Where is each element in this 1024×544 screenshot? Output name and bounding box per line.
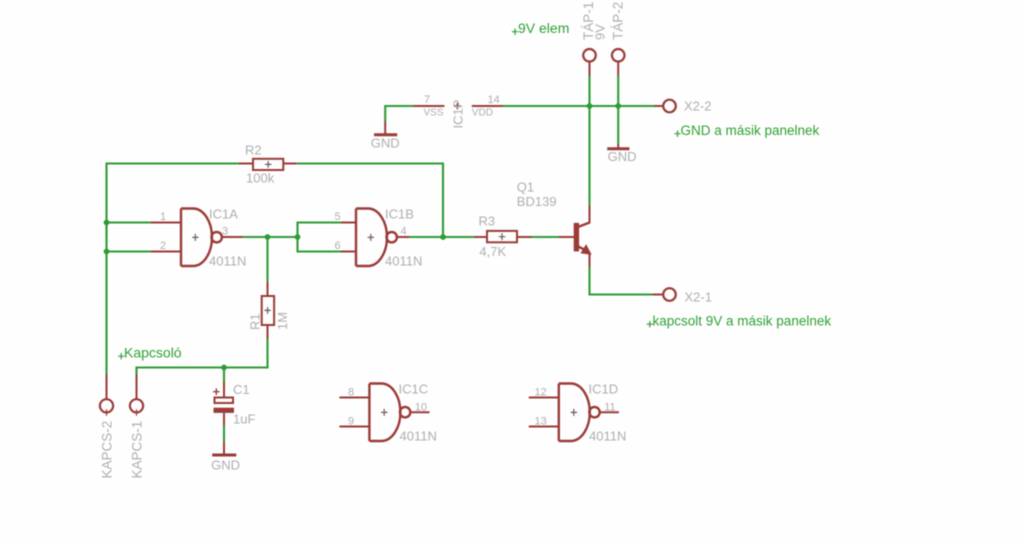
op-amp gate IC1D (4011 NAND D) (559, 383, 600, 441)
wire R3 to Q1 base (532, 236, 560, 238)
pin IC1A input stubs (151, 222, 181, 224)
pin IC1C output stub (410, 411, 429, 413)
pin R1 top stub (267, 282, 269, 296)
svg-text:X2-2: X2-2 (684, 99, 711, 114)
wire IC1B output to R3 (409, 236, 475, 238)
svg-text:R2: R2 (245, 143, 262, 158)
op-amp gate IC1B (4011 NAND B) (356, 209, 397, 267)
svg-text:KAPCS-2: KAPCS-2 (100, 421, 115, 479)
svg-text:GND a másik panelnek: GND a másik panelnek (681, 123, 820, 138)
pin X2-1 stub (653, 294, 664, 296)
wire branch to IC1B inputs (298, 223, 342, 252)
svg-text:100k: 100k (246, 171, 275, 186)
connector pad X2-2 (663, 100, 676, 113)
svg-text:Kapcsoló: Kapcsoló (124, 345, 182, 361)
junction node C1 top (221, 365, 227, 371)
wire left vertical to KAPCS-2 (105, 223, 107, 375)
svg-text:IC1A: IC1A (209, 207, 238, 222)
wire TAP-2 down to GND (617, 76, 619, 144)
wire TAP-1 down to rail and Q1 collector (588, 76, 590, 206)
pin Q1 base stub (559, 236, 574, 238)
net label origin cross GND (674, 131, 680, 137)
svg-text:14: 14 (488, 94, 500, 106)
pin GND stub under TAP-2 (617, 144, 619, 148)
pin IC1D output stub (600, 411, 619, 413)
pin R3 right stub (517, 236, 532, 238)
capacitor C1 top plate (215, 398, 234, 404)
op-amp gate IC1A (4011 NAND A) (181, 209, 222, 267)
ground symbol left (VSS) (374, 133, 397, 136)
junction node IC1A pin2 (104, 249, 110, 255)
svg-text:1M: 1M (275, 312, 290, 330)
wire VSS corner to GND (385, 106, 413, 121)
svg-text:4011N: 4011N (385, 254, 422, 269)
wire C1 top stub (223, 368, 225, 383)
pin VDD stub pin14 (472, 105, 503, 107)
svg-text:13: 13 (535, 416, 547, 428)
resistor R2 body (253, 159, 283, 170)
svg-text:VDD: VDD (472, 108, 493, 119)
svg-text:1: 1 (160, 211, 166, 223)
pin IC1A output stub (222, 236, 243, 238)
op-amp gate IC1C (4011 NAND C) (369, 383, 410, 441)
wire R2 feedback top rail (107, 164, 239, 238)
svg-text:GND: GND (371, 136, 400, 151)
transistor Q1 emitter arrow (581, 245, 591, 254)
wire C1 bottom to GND (223, 426, 225, 442)
pin IC1B input stubs (341, 222, 356, 224)
transistor Q1 collector line (578, 222, 590, 227)
wire node to R1 top (266, 237, 268, 282)
svg-text:VSS: VSS (424, 108, 444, 119)
svg-text:kapcsolt 9V a másik panelnek: kapcsolt 9V a másik panelnek (653, 314, 832, 329)
connector pad KAPCS-1 (130, 399, 143, 412)
wire R2 right to IC1B output node (297, 164, 443, 238)
svg-text:TÁP-2: TÁP-2 (611, 2, 626, 40)
svg-text:1uF: 1uF (233, 412, 255, 427)
svg-text:IC1B: IC1B (385, 207, 414, 222)
svg-text:10: 10 (415, 402, 427, 414)
svg-text:GND: GND (608, 149, 637, 164)
svg-text:8: 8 (348, 387, 354, 399)
svg-text:4011N: 4011N (400, 429, 437, 444)
origin cross IC1C (381, 409, 387, 416)
ground symbol under C1 (212, 454, 236, 457)
svg-text:KAPCS-1: KAPCS-1 (130, 421, 145, 479)
pin R1 bottom stub (267, 325, 269, 339)
ground symbol under TAP-2 (607, 147, 629, 150)
origin cross IC1D (571, 409, 577, 416)
svg-text:2: 2 (160, 240, 166, 252)
svg-text:IC1D: IC1D (589, 382, 619, 397)
junction node at IC1A output (104, 103, 622, 370)
svg-text:GND: GND (211, 458, 240, 473)
svg-text:5: 5 (335, 211, 341, 223)
svg-text:7: 7 (424, 94, 430, 106)
wire IC1A pin2 (107, 250, 152, 252)
pin TAP-2 stub (617, 62, 619, 76)
origin cross R2 (265, 161, 271, 168)
pin TAP-1 stub (589, 62, 591, 76)
junction node TAP-2 rail (615, 103, 621, 109)
wire VDD to X2-2 rail (503, 105, 655, 107)
svg-text:R3: R3 (479, 214, 496, 229)
svg-text:9V: 9V (593, 24, 608, 40)
pin Q1 collector stub (589, 206, 591, 224)
net label origin cross 9V elem (512, 29, 518, 35)
pin GND stub under C1 (223, 442, 225, 455)
resistor R3 body (487, 231, 517, 242)
transistor Q1 emitter line (578, 246, 590, 252)
svg-text:X2-1: X2-1 (685, 290, 712, 305)
connector pad TAP-1 (583, 49, 596, 62)
svg-text:9: 9 (348, 416, 354, 428)
wire IC1A pin1 (107, 221, 152, 223)
net label origin cross kapcsolt (647, 321, 653, 327)
svg-text:4: 4 (401, 226, 407, 238)
wire Q1 emitter to X2-1 (590, 267, 653, 295)
wire IC1A output to node (243, 236, 297, 238)
resistor R1 body (262, 296, 274, 325)
svg-text:Q1: Q1 (517, 180, 534, 195)
pin R2 right stub (283, 163, 296, 165)
svg-text:3: 3 (222, 226, 228, 238)
origin cross KAPCS-1 (133, 409, 139, 415)
svg-text:9V elem: 9V elem (518, 20, 569, 36)
svg-text:12: 12 (535, 387, 547, 399)
svg-text:4,7K: 4,7K (479, 244, 506, 259)
transistor Q1 BD139 base bar (574, 223, 579, 252)
pin C1 bottom stub (223, 413, 225, 426)
connector pad KAPCS-2 (100, 399, 113, 412)
svg-text:R1: R1 (248, 313, 263, 330)
pin VSS stub pin7 (414, 105, 445, 107)
pin X2-2 stub (655, 105, 664, 107)
junction node TAP-1 rail (587, 103, 593, 109)
svg-text:C1: C1 (233, 382, 250, 397)
origin cross IC1B (368, 234, 374, 241)
connector pad X2-1 (663, 288, 676, 301)
origin cross R3 (499, 233, 505, 240)
net label origin cross Kapcsolo (118, 353, 124, 359)
pin GND stub left (384, 121, 386, 134)
svg-text:BD139: BD139 (517, 194, 557, 209)
wire R1 bottom to C1 and KAPCS-1 (137, 339, 268, 375)
polarity plus C1 (213, 388, 219, 395)
origin cross KAPCS-2 (103, 409, 109, 415)
pin IC1C input stubs (339, 398, 429, 427)
svg-text:IC1P: IC1P (451, 100, 466, 129)
svg-text:4011N: 4011N (589, 429, 626, 444)
capacitor C1 bottom plate (214, 408, 235, 413)
junction node at IC1B output / R2 (440, 234, 446, 240)
svg-text:11: 11 (604, 402, 615, 414)
connector pad TAP-2 (612, 49, 625, 62)
pin IC1D input stubs (529, 398, 619, 427)
origin cross IC1P power symbol (454, 103, 460, 110)
pin KAPCS-1 stub (136, 375, 138, 400)
pin C1 top stub (223, 382, 225, 398)
svg-text:4011N: 4011N (209, 254, 246, 269)
junction node IC1A pin1 (104, 220, 110, 226)
junction node at IC1B input branch (295, 234, 301, 240)
svg-text:IC1C: IC1C (399, 382, 429, 397)
origin cross IC1A (192, 234, 198, 241)
pin R3 left stub (475, 236, 488, 238)
origin cross R1 (264, 307, 270, 314)
pin R2 left stub (238, 163, 253, 165)
pin KAPCS-2 stub (106, 375, 108, 400)
pin Q1 emitter stub (589, 252, 591, 267)
svg-text:6: 6 (335, 240, 341, 252)
pin IC1B output stub (397, 236, 409, 238)
